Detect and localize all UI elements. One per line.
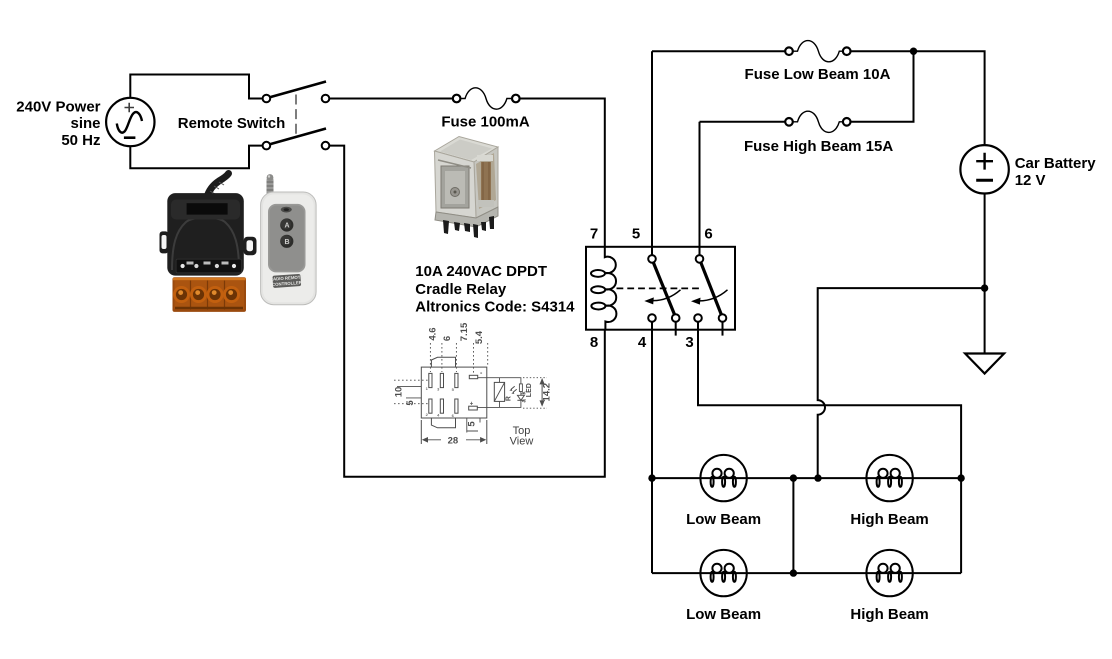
drawing dim bracket 5 bottom — [467, 418, 480, 433]
relay pins — [443, 216, 494, 238]
svg-text:10: 10 — [393, 387, 404, 398]
junction node top bus / pin4 — [648, 474, 655, 481]
ground symbol — [965, 354, 1004, 374]
svg-text:3: 3 — [685, 334, 693, 351]
svg-text:50 Hz: 50 Hz — [61, 132, 100, 149]
wire: fuse high beam left segment to pin 6 — [700, 121, 786, 123]
wire: junction node down to fuse high beam line — [851, 51, 914, 122]
receiver orange terminal block — [173, 277, 247, 312]
svg-text:Fuse 100mA: Fuse 100mA — [441, 114, 530, 131]
remote body — [261, 192, 317, 305]
drawing right dim 14.2 — [541, 379, 543, 405]
lamp L3 Low Beam (bottom) — [700, 550, 746, 596]
svg-text:4: 4 — [638, 334, 647, 351]
svg-text:Altronics Code: S4314: Altronics Code: S4314 — [415, 299, 575, 316]
remote LED slot — [281, 207, 292, 213]
relay pole 1 contacts — [648, 255, 679, 322]
svg-text:LED: LED — [526, 383, 533, 397]
svg-text:5: 5 — [405, 400, 416, 406]
remote switch S1b (bottom pole) — [263, 129, 330, 150]
mid lamp link wire — [792, 478, 794, 573]
wire: relay pin 3 down, right, down right side to bottom bus — [698, 322, 961, 573]
AC source V1 240V — [106, 98, 154, 146]
svg-text:View: View — [510, 435, 534, 447]
junction node top bus / battery feed — [814, 474, 821, 481]
junction node bottom bus / mid link — [790, 569, 797, 576]
svg-text:5: 5 — [632, 226, 640, 243]
junction node top bus / right vertical — [957, 474, 964, 481]
remote brand text — [272, 274, 301, 288]
junction node top bus / mid link — [790, 474, 797, 481]
svg-text:High Beam: High Beam — [850, 606, 928, 623]
relay pole 1 actuation arrow — [644, 290, 680, 305]
drawing pin slots row 2 — [429, 399, 458, 413]
svg-text:R: R — [505, 396, 512, 401]
svg-text:10A 240VAC DPDT: 10A 240VAC DPDT — [415, 263, 547, 280]
drawing left dim ticks — [397, 386, 421, 398]
wire: remote switch top right contact to fuse F1 — [329, 98, 453, 100]
receiver body — [167, 193, 244, 276]
svg-text:Car Battery: Car Battery — [1015, 155, 1097, 172]
drawing outline rect — [421, 367, 487, 418]
relay pole 2 blade (pin 6) — [701, 262, 722, 314]
fuse F3 High Beam — [785, 111, 850, 132]
svg-text:6: 6 — [704, 226, 712, 243]
drawing leader dotted lines top — [430, 343, 487, 374]
relay top face — [435, 137, 499, 163]
photo: RF receiver module — [160, 174, 257, 312]
junction node at battery negative branch — [981, 284, 988, 291]
svg-text:Cradle Relay: Cradle Relay — [415, 281, 507, 298]
relay pole 1 NO stub — [675, 322, 677, 336]
wire: battery negative node to lamp feed with hop over pin3 wire — [818, 288, 985, 478]
receiver mounting ear right — [244, 237, 257, 256]
label: 240V Power sine 50 Hz — [16, 99, 100, 149]
svg-text:6: 6 — [442, 336, 453, 341]
remote switch S1a (top pole) — [263, 82, 330, 103]
wire: top lamp bus — [652, 477, 961, 479]
wire: fuse low beam line right segment to battery top — [851, 51, 985, 145]
drawing LED circuit wires — [477, 378, 521, 408]
drawing dotted extension lines — [523, 378, 547, 409]
wire: fuse low beam line left segment — [652, 50, 785, 52]
wire: relay pin 6 up to fuse high beam line — [699, 122, 701, 255]
svg-text:A: A — [284, 223, 289, 230]
wire: remote switch bottom right contact down and around to relay pin 8 — [329, 146, 605, 477]
battery BT1 — [960, 145, 1008, 193]
drawing small series resistor — [519, 384, 522, 392]
remote button A — [280, 218, 293, 231]
photo: clear cradle relay — [435, 137, 499, 239]
receiver display window — [187, 203, 228, 214]
drawing bottom dimension 28 — [421, 420, 487, 444]
remote inner panel — [268, 204, 306, 273]
wire: AC source top to remote switch top contact — [130, 75, 262, 99]
wire: relay pin 5 up to fuse low beam line — [651, 51, 653, 255]
svg-text:High Beam: High Beam — [850, 511, 928, 528]
svg-text:12 V: 12 V — [1015, 172, 1046, 189]
relay pole 2 actuation arrow — [691, 290, 728, 305]
relay pole 2 NO stub — [722, 322, 724, 336]
relay base — [435, 207, 498, 227]
drawing coil pin minus — [469, 375, 477, 378]
svg-text:Fuse Low Beam 10A: Fuse Low Beam 10A — [745, 66, 891, 83]
svg-text:14.2: 14.2 — [542, 383, 553, 402]
drawing left dotted dimension lines — [394, 380, 429, 404]
drawing coil pin plus — [469, 406, 478, 410]
wire: fuse F1 to relay pin 7 — [520, 99, 605, 247]
relay pole 2 contacts — [694, 255, 726, 322]
svg-text:Remote Switch: Remote Switch — [178, 115, 286, 132]
svg-text:Fuse High Beam 15A: Fuse High Beam 15A — [744, 138, 893, 155]
wire: battery negative down to ground — [984, 194, 986, 354]
junction node at fuse low beam / battery — [910, 48, 917, 55]
remote button B — [280, 235, 293, 248]
svg-text:5.4: 5.4 — [474, 330, 485, 344]
relay coil (copper) — [476, 153, 496, 209]
wire: bottom lamp bus — [652, 572, 961, 574]
svg-text:7: 7 — [590, 226, 598, 243]
drawing tiny pin digits — [426, 370, 483, 418]
relay inner mechanism — [441, 166, 469, 208]
fuse F2 Low Beam — [785, 41, 850, 62]
remote antenna — [267, 178, 274, 195]
svg-text:+: + — [470, 402, 474, 408]
svg-text:4.6: 4.6 — [428, 327, 439, 340]
receiver mounting ear left — [160, 231, 169, 253]
drawing top tab — [431, 357, 455, 367]
svg-text:5: 5 — [467, 421, 478, 427]
svg-text:B: B — [284, 239, 289, 246]
label: 10A 240VAC DPDT Cradle Relay Altronics Code: S4314 — [415, 263, 575, 316]
technical drawing: relay pinout top view — [394, 343, 547, 444]
label: Top View — [510, 425, 534, 448]
relay U1 outline box — [586, 247, 735, 330]
label: Car Battery 12 V — [1015, 155, 1097, 189]
relay front face — [435, 151, 477, 218]
svg-text:8: 8 — [590, 334, 598, 351]
relay pole 1 blade (pin 5) — [653, 262, 674, 314]
relay coil (pins 7-8) — [591, 247, 616, 330]
lamp L4 High Beam (bottom) — [866, 550, 912, 596]
relay actuation dashed line — [617, 287, 703, 289]
lamp L2 High Beam (top) — [866, 455, 912, 501]
drawing dimension labels — [393, 322, 552, 446]
drawing resistor box with diagonal — [494, 382, 504, 401]
svg-text:sine: sine — [70, 115, 100, 132]
svg-text:28: 28 — [448, 435, 459, 446]
svg-text:240V Power: 240V Power — [16, 99, 100, 116]
drawing bottom tab — [431, 418, 455, 428]
receiver terminal label strip — [176, 259, 242, 273]
wire: AC source bottom to remote switch bottom contact — [130, 146, 262, 169]
photo: remote control handset — [261, 174, 317, 305]
dashed gang link of remote switch — [295, 95, 297, 135]
drawing pin slots row 1 — [429, 373, 458, 387]
svg-text:Low Beam: Low Beam — [686, 606, 761, 623]
lamp L1 Low Beam (top) — [700, 455, 746, 501]
drawing LED emission arrows — [511, 386, 517, 392]
fuse F1 100mA — [453, 88, 520, 109]
svg-text:7.15: 7.15 — [459, 322, 470, 341]
wire: relay pin 4 down left side to bottom lamp bus — [651, 322, 653, 573]
svg-text:Low Beam: Low Beam — [686, 511, 761, 528]
receiver antenna cable — [207, 174, 229, 198]
drawing LED triangle — [517, 395, 524, 400]
relay right face — [474, 147, 498, 218]
